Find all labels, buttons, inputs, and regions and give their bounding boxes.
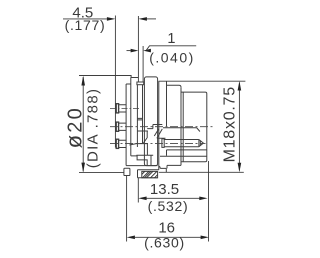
svg-text:1: 1 [167,31,175,47]
svg-text:ø20: ø20 [62,106,87,148]
svg-text:(.630): (.630) [144,234,185,250]
svg-text:M18x0.75: M18x0.75 [221,86,238,162]
svg-text:(.532): (.532) [148,198,189,214]
svg-text:13.5: 13.5 [150,181,179,198]
svg-text:(.040): (.040) [149,49,195,65]
svg-text:(.177): (.177) [65,17,106,33]
svg-text:(DIA .788): (DIA .788) [84,88,101,169]
